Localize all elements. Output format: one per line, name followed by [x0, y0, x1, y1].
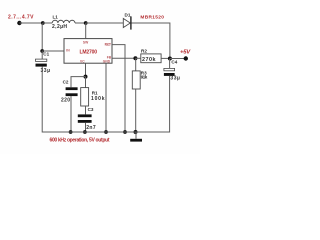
resistor R3 91k: [132, 71, 147, 90]
wire SW pin up: [85, 23, 87, 39]
wire ground rail: [43, 131, 170, 133]
node FSLCT rail junction: [123, 130, 127, 134]
wire GND pin down to rail: [105, 63, 107, 132]
wire R2 to output node: [161, 57, 170, 59]
node C2 rail junction: [69, 130, 73, 134]
wire C3 down to rail: [85, 123, 87, 132]
node VC junction: [84, 75, 88, 79]
node input junction: [41, 21, 45, 25]
resistor R1 100k: [81, 88, 105, 106]
wire output node down to C4: [169, 59, 171, 69]
node GND rail junction: [104, 130, 108, 134]
svg-text:LM2700: LM2700: [80, 50, 98, 56]
wire VC node left to C2: [71, 77, 86, 88]
capacitor C3 2n7: [78, 107, 96, 131]
wire junction to L1: [43, 22, 52, 24]
wire R1 to C3: [85, 106, 87, 114]
svg-text:2.7...4.7V: 2.7...4.7V: [8, 14, 34, 20]
svg-text:600 kHz operation, 5V output: 600 kHz operation, 5V output: [50, 137, 110, 143]
svg-text:VC: VC: [80, 59, 85, 63]
svg-text:220: 220: [61, 97, 70, 103]
wire D1 cathode to top-right corner and down to output node: [132, 23, 170, 59]
svg-text:91k: 91k: [141, 75, 148, 80]
ground: [130, 132, 142, 142]
capacitor C2 220: [61, 80, 78, 104]
wire R3 down to rail: [135, 89, 137, 132]
resistor R2 270k: [141, 48, 161, 63]
svg-text:R1: R1: [92, 91, 98, 96]
node +5V label: [180, 50, 191, 56]
node SW junction: [84, 21, 88, 25]
svg-text:C2: C2: [63, 80, 69, 85]
caption 600 kHz operation, 5V output: [50, 137, 110, 143]
svg-text:C3: C3: [88, 107, 94, 112]
inductor L1: [52, 14, 75, 29]
op-amp U1 LM2700 box: [64, 39, 112, 64]
svg-text:SW: SW: [83, 41, 89, 45]
svg-text:270k: 270k: [142, 57, 156, 63]
wire input junction down to IN node: [41, 23, 43, 51]
input terminal: [17, 21, 21, 25]
wire L1 to SW junction: [75, 22, 86, 24]
svg-text:C4: C4: [171, 60, 177, 65]
wire C2 down to rail: [70, 96, 72, 132]
output terminal: [184, 56, 188, 60]
wire FSLCT pin right and down to rail: [112, 45, 125, 132]
svg-text:100k: 100k: [91, 96, 105, 102]
wire output node to output terminal: [170, 58, 186, 60]
svg-text:D1: D1: [125, 12, 131, 17]
node IN junction: [40, 49, 44, 53]
wire FB pin to feedback node: [112, 57, 135, 59]
capacitor C1 33u electrolytic: [36, 51, 51, 74]
svg-text:2n7: 2n7: [86, 125, 96, 131]
svg-text:MBR1520: MBR1520: [140, 15, 164, 21]
node output junction: [168, 57, 172, 61]
wire C1 down to ground rail and rail left corner: [42, 67, 70, 132]
wire SW junction to D1 anode: [86, 22, 124, 24]
wire FB node down to R3: [135, 58, 137, 71]
node VIN label 2.7...4.7V: [8, 14, 34, 20]
svg-text:33µ: 33µ: [170, 75, 180, 81]
wire FB node to R2: [135, 57, 140, 59]
diode D1 MBR1520: [123, 12, 164, 29]
node R3 rail junction: [134, 130, 138, 134]
svg-text:2,2µH: 2,2µH: [52, 24, 67, 30]
wire IN node to IC left pin: [42, 50, 64, 52]
wire VC pin down to compensation node: [85, 63, 87, 76]
svg-text:+5V: +5V: [180, 50, 191, 56]
svg-text:GND: GND: [103, 59, 111, 63]
svg-text:FSLCT: FSLCT: [105, 43, 111, 47]
wire input terminal to junction: [19, 22, 42, 24]
wire C4 down to rail right corner: [136, 76, 170, 132]
capacitor C4 33u electrolytic: [164, 60, 180, 82]
svg-text:R2: R2: [141, 48, 147, 53]
wire IN node down to C1: [41, 51, 43, 59]
wire VC node down to R1: [85, 77, 87, 88]
node C3 rail junction: [83, 130, 87, 134]
svg-text:C1: C1: [43, 51, 49, 56]
svg-text:L1: L1: [53, 14, 59, 19]
node FB junction: [133, 56, 137, 60]
